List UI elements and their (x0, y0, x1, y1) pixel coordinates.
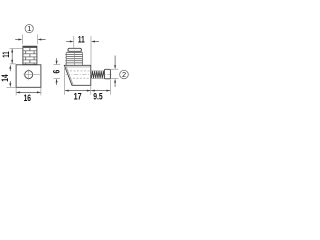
svg-text:1: 1 (27, 24, 31, 33)
svg-text:17: 17 (74, 92, 82, 102)
svg-text:6: 6 (52, 70, 62, 74)
svg-text:2: 2 (122, 70, 126, 79)
svg-text:9.5: 9.5 (93, 92, 102, 102)
svg-text:11: 11 (1, 51, 11, 57)
svg-text:16: 16 (24, 93, 31, 103)
svg-text:11: 11 (78, 34, 85, 44)
svg-text:14: 14 (0, 74, 10, 82)
